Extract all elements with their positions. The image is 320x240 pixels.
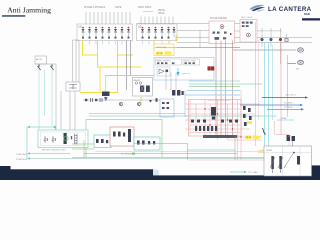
svg-text:G1 G2: G1 G2: [157, 53, 164, 55]
bus vertical pair down from U1: [127, 41, 131, 91]
power resistor R9 red pair: [208, 67, 214, 71]
logo swoosh: [250, 5, 266, 12]
opto IC U8 cluster: [172, 90, 184, 96]
green left wire g2: [72, 143, 94, 145]
cyan feedback wire 2: [268, 42, 270, 147]
logo underline bar: [302, 18, 320, 20]
green long rail: [84, 153, 237, 155]
cyan feedback wire 3: [272, 45, 274, 120]
SCR pair Q8: [127, 27, 130, 39]
charge indicator green: [64, 136, 68, 140]
SCR bank U2 box: [137, 24, 178, 41]
breaker feed wire: [35, 63, 56, 65]
transistor Q16: [137, 102, 141, 106]
feeder stub wires into U1: [86, 12, 130, 24]
U6 header strip A: [156, 59, 182, 65]
teal rail T2: [89, 115, 277, 117]
svg-text:BATTERY BACKUP UNIT: BATTERY BACKUP UNIT: [42, 149, 67, 152]
gate wire yellow D: [153, 41, 155, 51]
pale blue rail: [185, 94, 240, 96]
TR1 junction: [293, 152, 295, 154]
teal mid rail: [187, 149, 235, 151]
svg-text:U1: U1: [79, 25, 83, 29]
fuse F1: [38, 64, 41, 70]
svg-text:PHASE A PHASE B: PHASE A PHASE B: [84, 6, 106, 9]
ocher tag with red tick: [258, 150, 266, 153]
svg-text:RGB: RGB: [304, 12, 310, 16]
sense label line A: [16, 152, 70, 155]
motor M2: [288, 60, 304, 70]
rectifier box D4: [66, 82, 80, 91]
output arrow wire blue 2: [267, 107, 304, 111]
TR1 inner partition: [264, 146, 312, 176]
maroon bus wire 1: [215, 41, 217, 136]
IGBT stack Q17: [211, 107, 216, 120]
U12 glyphs: [137, 141, 155, 145]
K1 contacts: [140, 86, 150, 93]
K1 coil lamps: [135, 82, 137, 84]
green left wire g1: [83, 140, 85, 158]
teal drop wire a: [38, 70, 40, 130]
led feed wire: [235, 30, 283, 32]
TR1 coil 2: [278, 156, 283, 173]
charger box U10: [94, 135, 111, 148]
relay box K1: [133, 78, 153, 97]
diode D5: [149, 100, 152, 103]
blue arrow marker: [104, 97, 108, 102]
yellow highlight tag 1: [247, 121, 252, 124]
SCR pair Q5: [108, 27, 111, 39]
svg-text:VBUS-: VBUS-: [158, 13, 165, 15]
gate wire yellow A: [83, 41, 98, 56]
red mesh: horizontal branch wires: [185, 104, 262, 140]
svg-text:DC BUS +: DC BUS +: [284, 103, 295, 105]
SCR pair Q14: [173, 27, 176, 37]
yellow highlight labels row: [245, 136, 260, 140]
SCR pair Q6: [114, 27, 117, 39]
motor M1: [233, 48, 304, 52]
footer bottom strip: [153, 175, 320, 180]
TR1 coupling curve: [284, 153, 294, 169]
op-amp sub box: [157, 67, 170, 76]
svg-text:DRV1 DRV2: DRV1 DRV2: [138, 6, 152, 9]
output arrow wire dark: [262, 94, 308, 99]
U8 feed stubs: [166, 73, 176, 91]
title underline bar: [2, 15, 25, 17]
SCR pair Q1: [82, 27, 85, 39]
green safety loop box: [86, 120, 162, 158]
gate wire yellow E: [168, 41, 170, 45]
svg-text:Anti Jamming: Anti Jamming: [7, 5, 51, 14]
footer light accent: [153, 170, 159, 176]
U3 lamp: [220, 25, 224, 29]
charge tick red: [71, 136, 72, 139]
teal drop wire c: [51, 70, 53, 126]
pale blue control wire: [105, 75, 165, 77]
inverter stage boundary box red: [189, 100, 242, 137]
maroon bus wire 4: [232, 41, 234, 136]
red interlink rail: [95, 151, 265, 153]
svg-text:GATE: GATE: [115, 6, 122, 9]
transistor Q15: [119, 102, 123, 106]
U10 glyphs: [96, 139, 108, 143]
svg-text:SEL LOGIC: SEL LOGIC: [241, 17, 253, 19]
indicator LED D1 green: [261, 28, 264, 47]
green caption tick: [132, 153, 135, 155]
cyan feedback wire 1: [262, 42, 265, 150]
pink bounding wire: [275, 121, 289, 146]
U4 header cells: [242, 22, 253, 28]
U3 internal glyph row: [213, 32, 227, 40]
yellow drop wire: [99, 67, 101, 93]
feeder stub wires into U2: [141, 17, 173, 25]
svg-text:FDBK: FDBK: [281, 118, 287, 120]
gate wire yellow F: [175, 35, 177, 42]
SCR pair Q2: [88, 27, 91, 39]
indicator LED D3 red: [279, 28, 282, 64]
capacitor C1: [91, 98, 93, 102]
inductor L1 squiggle: [262, 128, 265, 135]
relay logic box U4: [240, 20, 257, 43]
svg-text:XFMR: XFMR: [266, 150, 273, 152]
svg-text:VBUS+: VBUS+: [158, 10, 166, 12]
teal link wire h2: [189, 83, 262, 85]
driver pair Q18: [287, 135, 296, 152]
footer right corner block: [311, 165, 320, 180]
pink rail bottom: [189, 159, 290, 161]
fuse F2: [51, 64, 54, 70]
maroon bus wire 3: [225, 41, 227, 136]
ballast resistor R10: [75, 134, 78, 145]
svg-text:AC IN: AC IN: [36, 58, 42, 61]
controller outer box U6: [154, 58, 214, 81]
capacitor C4: [156, 98, 158, 102]
svg-text:SYNC LOGIC: SYNC LOGIC: [184, 60, 196, 62]
U6 header strip B: [183, 59, 200, 65]
vertical link v1: [187, 144, 189, 160]
gate label cells: [156, 46, 172, 55]
sense label line B: [16, 157, 268, 160]
SCR pair Q9: [141, 27, 144, 39]
svg-text:T5 T6: T5 T6: [246, 137, 252, 139]
resistor R1: [85, 99, 87, 101]
output transformer box TR1: [264, 146, 312, 176]
B1 inner frame: [41, 132, 86, 146]
svg-text:SYNC BUS: SYNC BUS: [16, 159, 28, 161]
resistor ladder row: [195, 126, 217, 131]
small glyph cluster above TR1: [287, 136, 294, 146]
input breaker box F0: [35, 56, 47, 64]
SCR pair Q7: [121, 27, 124, 39]
svg-text:PWM CONTROL: PWM CONTROL: [157, 60, 171, 62]
green link wire h3: [189, 86, 240, 88]
SCR pair Q13: [167, 27, 170, 39]
TR1 winding resistor: [297, 156, 300, 165]
TR1 coil 1: [270, 156, 275, 173]
gray long rail: [72, 157, 264, 159]
svg-text:PULSE DRIVER: PULSE DRIVER: [210, 18, 227, 20]
U11 glyphs: [113, 129, 131, 142]
D4 internals: [69, 84, 77, 89]
footer left corner block: [0, 166, 11, 180]
battery cell 1: [44, 137, 48, 143]
resistor R2: [95, 99, 97, 101]
left drop wires from U1: [73, 40, 80, 82]
pink sense wire 2: [258, 40, 260, 120]
footer left bar: [0, 169, 153, 180]
green left wire g3: [72, 148, 94, 150]
snubber diodes cluster right: [243, 106, 252, 126]
teal rail T3 with arrow: [27, 126, 52, 159]
U4 pilot lamp: [247, 33, 251, 37]
vbus jumper wire: [143, 10, 153, 12]
gate wire yellow B: [98, 41, 142, 68]
vertical link v2 red: [234, 135, 236, 160]
svg-text:DC BUS -: DC BUS -: [284, 107, 294, 109]
red stub rail: [208, 100, 230, 102]
SCR pair Q11: [154, 27, 157, 39]
teal link wire h1: [189, 80, 240, 82]
red mesh: vertical branch wires: [190, 90, 241, 160]
MOSFET driver U3 box: [209, 21, 235, 44]
pale blue drop: [184, 91, 186, 117]
U9 glyphs: [162, 102, 169, 109]
gate wire yellow C: [117, 41, 119, 56]
maroon bus wire 2: [220, 41, 222, 136]
indicator LED D2 blue: [270, 28, 273, 47]
svg-text:TO LOAD: TO LOAD: [248, 171, 258, 174]
red junction nodes: [204, 108, 241, 137]
yellow bus row: [80, 55, 118, 93]
charge transistor Q19: [64, 133, 67, 144]
SCR pair Q4: [101, 27, 104, 39]
inverter box U11 red: [110, 127, 134, 146]
gray mid link: [134, 143, 188, 145]
cathode stub wires under banks: [90, 41, 163, 45]
U3 red pin mark: [230, 33, 231, 35]
SCR bank U1 box: [77, 24, 133, 41]
svg-text:sync out: sync out: [182, 72, 190, 75]
teal rail T1: [89, 113, 185, 115]
red return wire S: [287, 64, 289, 117]
battery box B1: [38, 130, 88, 148]
svg-text:CTRL BUS: CTRL BUS: [16, 154, 27, 156]
capacitor C2: [100, 98, 102, 102]
SCR pair Q10: [148, 27, 151, 39]
filter box U12: [134, 137, 160, 150]
SCR pair Q12: [161, 27, 164, 39]
pale blue rail upper: [187, 90, 240, 92]
dark comp row under mesh: [203, 135, 237, 138]
analog rail wire: [83, 99, 160, 101]
svg-text:RELAY: RELAY: [134, 79, 141, 82]
magenta sense wire: [255, 22, 257, 146]
teal drop wire b: [44, 70, 46, 116]
gray drop wires under D4: [56, 64, 75, 130]
T3 entry arrow: [52, 126, 56, 130]
snubber box U9: [160, 99, 174, 117]
diode bus row: [191, 120, 238, 123]
svg-text:AC OUT 1: AC OUT 1: [286, 94, 297, 97]
SCR pair Q3: [95, 27, 98, 39]
transformer T0 dark block: [102, 92, 110, 97]
battery cell 2: [52, 137, 56, 143]
cyan tap label wire: [277, 118, 294, 120]
indicator buzzer LS1: [285, 34, 288, 64]
gate label box yellow: [154, 44, 174, 56]
bus wire to driver: [137, 24, 313, 48]
svg-text:U2: U2: [138, 25, 142, 29]
yellow stub k: [140, 97, 142, 105]
red return wire R: [280, 42, 282, 135]
arrow drop wire: [105, 76, 107, 97]
svg-text:LA CANTERA: LA CANTERA: [268, 6, 312, 13]
output arrow wire blue 1: [240, 103, 303, 107]
cyan down arrow: [176, 68, 179, 76]
link wire top of ctrl cluster: [155, 47, 240, 49]
teal tail arrow: [230, 171, 258, 174]
